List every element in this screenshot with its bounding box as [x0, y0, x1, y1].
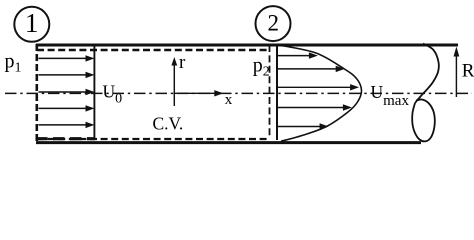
svg-text:2: 2 — [267, 10, 279, 35]
pipe break loop — [412, 99, 435, 141]
station 2 circle — [256, 6, 291, 41]
inlet box bottom bold dashed segment — [36, 137, 95, 140]
pipe break squiggle upper arc — [415, 44, 439, 104]
svg-text:1: 1 — [25, 8, 39, 38]
inlet uniform-profile arrow 5 — [39, 124, 88, 126]
inlet uniform-profile arrow 1 — [39, 57, 88, 59]
inlet uniform-profile arrow 2 — [39, 74, 88, 76]
parabola arrow 2 — [278, 68, 338, 70]
svg-text:r: r — [179, 52, 186, 73]
parabola arrow 4 — [278, 107, 345, 109]
section 1 profile end line — [93, 45, 95, 139]
svg-text:R: R — [462, 61, 474, 82]
centerline (dash-dot axis) — [5, 92, 472, 94]
R dimension arrow — [455, 49, 457, 97]
pipe bottom wall — [36, 141, 421, 144]
control volume top dashed boundary — [37, 49, 269, 51]
x-axis arrow — [174, 92, 216, 94]
parabolic velocity profile curve — [278, 45, 362, 142]
pipe top wall — [36, 44, 458, 47]
svg-text:x: x — [225, 92, 233, 108]
parabola arrow 1 — [278, 55, 311, 57]
inlet uniform-profile arrow 3 (centerline) — [39, 91, 88, 93]
control volume left dashed boundary (section 1 face) — [35, 44, 38, 142]
inlet uniform-profile arrow 4 — [39, 107, 88, 109]
station 1 circle — [14, 7, 49, 42]
r-axis arrow — [173, 62, 175, 106]
parabola arrow 5 — [278, 126, 322, 128]
section 2 profile base line — [276, 45, 278, 140]
control volume right dashed boundary (section 2 face) — [269, 45, 271, 138]
control volume bottom dashed boundary — [37, 138, 269, 140]
parabola arrow 3 (centerline) — [278, 86, 352, 88]
svg-text:C.V.: C.V. — [153, 114, 184, 134]
